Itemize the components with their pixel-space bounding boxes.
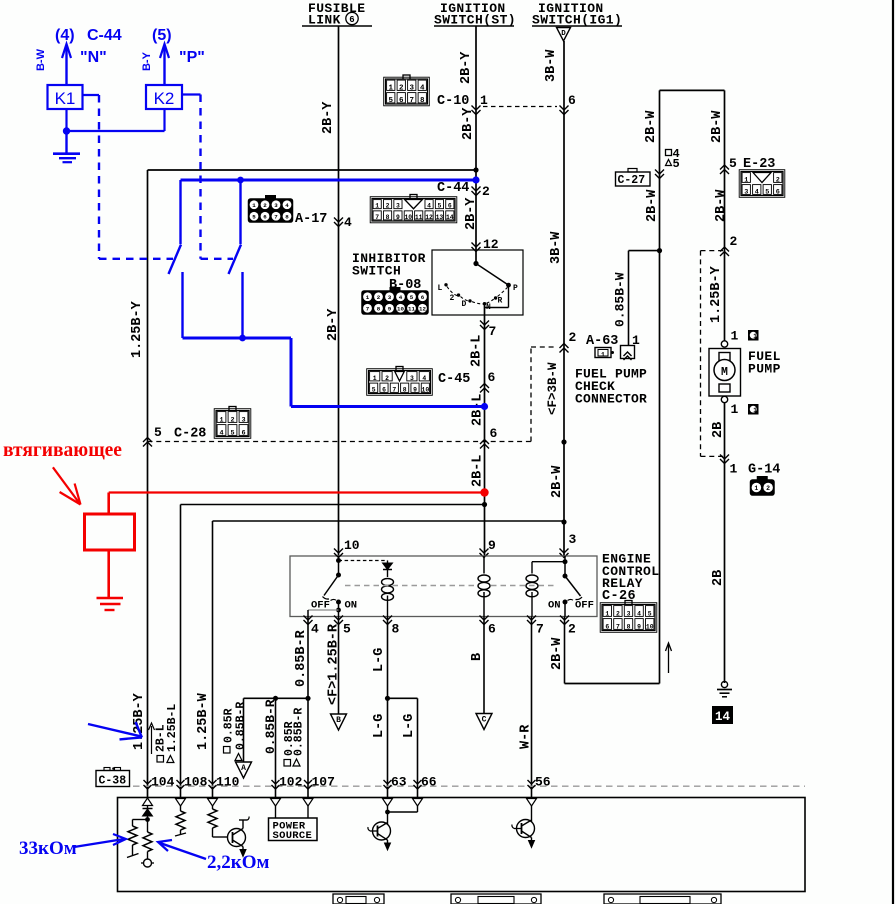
connector A-17 black [249, 196, 293, 223]
wire 0.85B-W branch A-63 [628, 251, 630, 346]
relay diode [387, 561, 389, 564]
connector C-45 10-pin [367, 367, 433, 396]
inhibitor bracket P to N wire [508, 285, 510, 307]
svg-text:(5): (5) [152, 27, 172, 44]
svg-text:0.85B-R: 0.85B-R [294, 629, 309, 687]
svg-text:3: 3 [627, 610, 631, 617]
svg-text:ON: ON [548, 600, 561, 612]
svg-text:5: 5 [729, 156, 737, 171]
triangle D terminal of ignition switch IG1 [557, 28, 571, 42]
blue dashed horizontal to switch blades [99, 258, 173, 260]
svg-text:2B-W: 2B-W [710, 110, 725, 143]
black bus line from 1.25B-Y wire to ST wire [148, 169, 477, 171]
junction dot on 3B-W at y442 [561, 439, 566, 444]
svg-text:4: 4 [344, 215, 352, 230]
svg-text:1: 1 [480, 93, 488, 108]
svg-text:10: 10 [646, 623, 654, 630]
svg-text:33кОм: 33кОм [19, 838, 77, 859]
connector C-27 [616, 172, 651, 186]
marker E-23 pin 5 [720, 165, 729, 170]
svg-text:2B-L: 2B-L [469, 335, 484, 367]
ECU pin terminals triangles [143, 798, 153, 806]
blue junction right switch [237, 177, 244, 184]
bottom partial connector 2 [451, 894, 541, 904]
svg-text:5: 5 [372, 386, 376, 393]
svg-text:14: 14 [446, 214, 454, 221]
svg-text:56: 56 [535, 775, 551, 790]
wire 1.25B-Y left to ECU pin 104 [147, 170, 149, 797]
inhibitor position R [494, 296, 497, 299]
svg-text:11: 11 [415, 214, 423, 221]
junction dot pin 66 branch [385, 696, 390, 701]
red ground symbol [97, 597, 124, 600]
blue junction at ST wire [472, 176, 479, 183]
relay pin 4 marker and wire 0.85B-R [304, 616, 313, 621]
connector G-14 black [751, 477, 775, 496]
svg-text:<F>1.25B-R: <F>1.25B-R [326, 623, 341, 705]
svg-text:B-W: B-W [35, 48, 47, 71]
relay pin 8 marker and wire L-G [383, 616, 392, 621]
svg-text:9: 9 [637, 623, 641, 630]
blue arrow K2 up [163, 47, 165, 85]
black 1-pin icon top [749, 331, 759, 341]
svg-text:"N": "N" [80, 49, 107, 66]
svg-text:0.85B-R: 0.85B-R [234, 702, 247, 750]
marker relay pin 9 [480, 549, 489, 554]
svg-text:6: 6 [605, 623, 609, 630]
bottom partial connector 1 [333, 894, 384, 904]
svg-text:C-27: C-27 [618, 174, 646, 187]
ECU pin 66 marker [414, 780, 422, 784]
wire 2B-Y ignition ST [475, 26, 477, 264]
wire 3B-W ignition IG1 to relay pin 3 [563, 41, 565, 556]
marker inhibitor pin 12 [472, 243, 481, 248]
svg-text:8: 8 [386, 214, 390, 221]
svg-text:3: 3 [409, 84, 414, 92]
svg-text:107: 107 [312, 775, 335, 790]
svg-text:втягивающее: втягивающее [3, 440, 122, 461]
svg-text:B: B [470, 653, 485, 661]
svg-text:5: 5 [252, 214, 256, 221]
svg-text:2B-W: 2B-W [644, 110, 659, 143]
relay switch1 top junction [336, 558, 341, 563]
page right border [892, 0, 894, 904]
red wire to 2B-L [109, 491, 485, 493]
svg-text:<F>3B-W: <F>3B-W [546, 362, 560, 415]
ECU transistor pin 110 [228, 829, 246, 847]
svg-text:6: 6 [776, 188, 780, 196]
svg-text:4: 4 [420, 84, 425, 92]
relay coil 3 [531, 562, 533, 574]
svg-text:4: 4 [285, 202, 289, 209]
svg-text:E-23: E-23 [743, 157, 775, 172]
svg-text:(4): (4) [55, 27, 75, 44]
svg-text:3: 3 [241, 416, 245, 424]
svg-text:L-G: L-G [372, 648, 387, 672]
svg-text:63: 63 [391, 775, 407, 790]
svg-text:1: 1 [744, 176, 748, 184]
red solenoid box [107, 493, 110, 515]
svg-text:1: 1 [373, 375, 377, 382]
red arrow [53, 467, 80, 504]
svg-text:1: 1 [219, 416, 223, 424]
svg-text:6: 6 [488, 622, 496, 637]
svg-text:3: 3 [569, 532, 577, 547]
svg-text:2B-W: 2B-W [550, 637, 565, 670]
svg-text:C-44: C-44 [437, 181, 469, 196]
dashed wire (F)3B-W from C-28 to A-63 [148, 441, 532, 443]
svg-text:10: 10 [344, 538, 360, 553]
svg-text:3B-W: 3B-W [549, 231, 564, 264]
blue switch 1 blade [169, 245, 182, 275]
svg-text:10: 10 [421, 386, 429, 393]
wire 2B-W right branch to E-23 and fuel pump [724, 90, 726, 341]
svg-text:2B: 2B [711, 422, 726, 438]
svg-text:1: 1 [252, 202, 256, 209]
svg-text:8: 8 [403, 386, 407, 393]
connector C-26 10-pin [600, 601, 657, 633]
red junction dot [480, 488, 488, 496]
svg-text:14: 14 [715, 710, 731, 724]
svg-text:8: 8 [377, 306, 381, 313]
marker A-63 pin 2 chevron (F)3B-W [560, 344, 569, 349]
svg-text:4: 4 [637, 610, 641, 617]
svg-text:6: 6 [421, 294, 425, 301]
junction dot 2B-L at branch to 108 [482, 502, 487, 507]
relay coil 1 [387, 570, 389, 578]
ECU power source box [269, 818, 318, 841]
dashed link pin10 to diode [339, 560, 388, 562]
svg-text:D: D [462, 300, 467, 309]
junction node: top line meets ST wire [473, 167, 478, 172]
svg-text:3: 3 [410, 375, 414, 382]
ECU pin 108 marker [177, 780, 185, 784]
bracket wire to ECU pin 102 and triangle A [244, 697, 309, 699]
labels 0.85R 0.85B-R pair at triangle A wire [224, 747, 231, 754]
svg-text:G-14: G-14 [748, 463, 780, 478]
fuel pump motor [721, 341, 727, 347]
svg-text:3: 3 [744, 188, 748, 196]
ECU pin 63 marker [384, 780, 392, 784]
svg-text:2B-L: 2B-L [470, 455, 485, 487]
blue arrow 33k [74, 839, 124, 847]
svg-text:1.25B-Y: 1.25B-Y [709, 265, 724, 323]
svg-text:A-17: A-17 [295, 212, 327, 227]
svg-text:9: 9 [388, 306, 392, 313]
svg-text:C-44: C-44 [87, 27, 122, 44]
marker pin 6 on IG1 wire [560, 106, 569, 111]
svg-text:B: B [336, 716, 341, 725]
svg-text:3: 3 [396, 203, 400, 210]
K2 stub to dashed [182, 93, 201, 95]
svg-text:2: 2 [450, 294, 455, 303]
svg-text:"P": "P" [179, 49, 205, 66]
svg-text:2: 2 [263, 202, 267, 209]
svg-text:104: 104 [151, 775, 175, 790]
svg-text:4: 4 [422, 375, 426, 382]
svg-text:0.85B-R: 0.85B-R [293, 708, 306, 756]
svg-text:1: 1 [601, 352, 605, 359]
branch wire to pin 66 [388, 697, 418, 699]
svg-text:5: 5 [648, 610, 652, 617]
svg-text:4: 4 [399, 294, 403, 301]
bus bracket 2B-W top [660, 89, 725, 91]
ECU terminal circle pin104 [144, 859, 152, 867]
ECU pin 110 marker [209, 780, 217, 784]
svg-text:6: 6 [568, 93, 576, 108]
svg-text:2: 2 [568, 622, 576, 637]
svg-text:L-G: L-G [372, 714, 387, 738]
up arrow beside 2B-W vertical [668, 644, 670, 673]
svg-text:5: 5 [388, 97, 393, 105]
svg-text:4: 4 [427, 203, 431, 210]
relay switch1 blade [324, 575, 339, 596]
relay pin 7 marker and wire W-R [527, 616, 536, 621]
svg-text:3B-W: 3B-W [544, 49, 559, 82]
blue bus down [290, 338, 293, 407]
svg-text:108: 108 [184, 775, 208, 790]
engine control relay box C-26 [290, 556, 597, 617]
svg-text:C-10: C-10 [437, 94, 469, 109]
svg-text:7: 7 [375, 214, 379, 221]
connector C-10 [384, 75, 430, 106]
svg-text:4: 4 [219, 429, 223, 437]
svg-text:8: 8 [285, 214, 289, 221]
svg-text:7: 7 [366, 306, 370, 313]
svg-text:1: 1 [388, 84, 393, 92]
svg-text:P: P [513, 284, 518, 293]
svg-text:2B-Y: 2B-Y [459, 51, 474, 84]
svg-text:1: 1 [731, 402, 739, 417]
svg-text:2: 2 [386, 203, 390, 210]
blue bottom bus [183, 337, 292, 340]
wire 2B-W bottom run to relay pin2 [565, 683, 660, 685]
svg-text:7: 7 [489, 324, 497, 339]
svg-text:6: 6 [490, 426, 498, 441]
junction dot pin102 [273, 696, 278, 701]
svg-text:6: 6 [448, 203, 452, 210]
svg-text:1: 1 [731, 329, 739, 344]
relay link to pin 4 [308, 609, 339, 611]
marker pin 6 at dashed crossing [480, 440, 489, 445]
relay pin 5 marker and wire (F)1.25B-R [334, 616, 343, 621]
svg-text:5: 5 [673, 157, 680, 171]
svg-text:2B-Y: 2B-Y [326, 308, 341, 341]
svg-text:L-G: L-G [402, 714, 417, 738]
svg-text:2B-W: 2B-W [645, 189, 660, 222]
ECU resistor 2.2k [143, 832, 152, 852]
ECU junction dot pin104 [147, 816, 149, 832]
blue bus to 2B-L wire [291, 405, 485, 408]
svg-text:A-63: A-63 [586, 334, 618, 349]
inhibitor position N [483, 302, 486, 305]
svg-text:2: 2 [569, 330, 577, 345]
ECU resistor 33k [133, 819, 148, 821]
svg-text:A: A [241, 764, 246, 773]
svg-text:11: 11 [408, 306, 415, 313]
black 1-pin icon bottom [749, 405, 759, 415]
svg-text:2B-Y: 2B-Y [321, 101, 336, 134]
svg-text:2: 2 [399, 84, 404, 92]
svg-text:C-26: C-26 [602, 589, 636, 604]
blue ground symbol [65, 131, 67, 154]
wire 2B to ground G-14 [724, 403, 726, 684]
relay switch1 contact [338, 556, 340, 575]
svg-text:1.25B-Y: 1.25B-Y [132, 692, 147, 750]
svg-text:1.25B-Y: 1.25B-Y [130, 300, 145, 358]
svg-text:110: 110 [216, 775, 240, 790]
svg-text:C-38: C-38 [99, 775, 127, 788]
wire 1.25B-W branch to ECU pin 110 [213, 520, 565, 522]
ECU pin 102 marker [272, 780, 280, 784]
svg-text:3: 3 [274, 202, 278, 209]
svg-text:6: 6 [241, 429, 245, 437]
blue link K1 K2 bottoms [67, 130, 165, 132]
svg-text:13: 13 [436, 214, 444, 221]
relay coil 2 pin9 [483, 556, 485, 574]
svg-text:6: 6 [399, 97, 404, 105]
inhibitor rotor blade to P [476, 264, 509, 286]
blue switch 2 upper lead [239, 180, 241, 244]
svg-text:2B-Y: 2B-Y [464, 197, 479, 230]
blue switch 1 upper lead [179, 180, 181, 244]
svg-text:SWITCH: SWITCH [352, 264, 401, 279]
svg-text:2: 2 [766, 485, 770, 492]
svg-text:PUMP: PUMP [748, 362, 781, 377]
dashed link C-10 pin1 to IG1 pin 6 [483, 106, 557, 108]
svg-text:1: 1 [754, 485, 758, 492]
svg-text:D: D [561, 30, 566, 38]
blue switch 2 lower lead [241, 272, 243, 338]
svg-text:4: 4 [311, 622, 319, 637]
svg-text:1: 1 [753, 333, 757, 340]
blue junction dot [63, 127, 70, 134]
svg-text:6: 6 [488, 370, 496, 385]
svg-text:2: 2 [230, 416, 234, 424]
blue dashed control line K1 [98, 95, 100, 259]
triangle C terminal [476, 714, 492, 730]
svg-text:1: 1 [730, 462, 738, 477]
junction dot 0.85B-W joins 2B-W wire [657, 248, 662, 253]
relay pin 2 marker and wire 2B-W [560, 616, 569, 621]
svg-text:5: 5 [154, 425, 162, 440]
svg-text:2: 2 [482, 184, 490, 199]
svg-text:2: 2 [730, 234, 738, 249]
svg-text:SOURCE: SOURCE [273, 830, 313, 842]
svg-text:9: 9 [413, 386, 417, 393]
labels 2B-L 1.25B-L pin108 markers [157, 756, 164, 763]
ECU transistor pins 63 66 [387, 806, 389, 820]
ground ref 14 black box [713, 707, 733, 724]
svg-text:C: C [482, 716, 487, 725]
svg-text:5: 5 [438, 203, 442, 210]
svg-text:1: 1 [605, 610, 609, 617]
labels 0.85R 0.85B-R pair pin107 [284, 760, 291, 767]
svg-text:12: 12 [419, 306, 426, 313]
svg-text:1.25B-L: 1.25B-L [166, 704, 179, 752]
svg-text:2B-Y: 2B-Y [461, 107, 476, 140]
marker relay pin 10 [334, 549, 343, 554]
ECU pin104 diode [147, 806, 149, 808]
svg-text:2B-W: 2B-W [714, 189, 729, 222]
blue arrow to wire 104 [88, 724, 141, 736]
connector E-23 6-pin [739, 170, 785, 198]
blue switch 2 blade [229, 245, 242, 275]
svg-text:8: 8 [420, 97, 425, 105]
svg-text:C-45: C-45 [438, 372, 470, 387]
ECU transistor pin 56 [531, 806, 533, 818]
svg-text:R: R [498, 297, 503, 306]
wire 2B-L inhibitor N to relay pin 9 [484, 304, 486, 556]
ECU pin 107 marker [304, 780, 312, 784]
svg-text:2: 2 [776, 176, 780, 184]
wire 2B-L branch to ECU pin 108 [181, 504, 485, 506]
svg-text:10: 10 [404, 214, 412, 221]
relay K2 box [146, 85, 182, 109]
blue switch 1 lower lead [181, 272, 183, 338]
svg-text:1: 1 [366, 294, 370, 301]
svg-text:9: 9 [488, 538, 496, 553]
svg-text:5: 5 [410, 294, 414, 301]
A-63 1-pin box icon [595, 348, 611, 358]
svg-text:B-Y: B-Y [141, 51, 153, 71]
marker relay pin 3 [560, 549, 569, 554]
marker C-45 pin 6 [480, 384, 489, 389]
svg-text:K2: K2 [154, 89, 175, 108]
ECU boundary dashed line [133, 785, 805, 787]
ECU resistor pin 108 [180, 806, 182, 811]
relay switch1 common lead [338, 602, 340, 617]
svg-text:7: 7 [409, 97, 414, 105]
svg-text:6: 6 [382, 386, 386, 393]
svg-text:7: 7 [536, 622, 544, 637]
blue wire bus to C-44 [181, 179, 477, 182]
svg-text:1: 1 [753, 407, 757, 414]
svg-text:M: M [721, 366, 728, 379]
inhibitor position 2 [457, 293, 460, 296]
svg-text:6: 6 [349, 15, 354, 25]
A-63 chevron box [621, 346, 635, 359]
junction dot on 3B-W at y522 [561, 519, 566, 524]
dashed fuel pump assembly outline [701, 250, 725, 252]
connector marker A-17 pin 4 on wire [334, 218, 343, 223]
marker G-14 pin 1 [720, 455, 729, 460]
wire 2B-Y fusible link to relay pin 10 [338, 26, 340, 556]
marker square 4 triangle 5 beside C-27 [666, 150, 672, 156]
blue arrow 2.2k [160, 843, 206, 859]
relay switch2 junction [563, 559, 568, 564]
svg-text:4: 4 [755, 188, 759, 196]
inhibitor rotor pivot [473, 261, 478, 266]
svg-text:7: 7 [392, 386, 396, 393]
blue junction switch2 [239, 335, 246, 342]
junction dot pin107 branch [305, 696, 310, 701]
connector C-44 14-pin [370, 195, 457, 223]
svg-text:1.25B-W: 1.25B-W [196, 692, 211, 750]
marker pin 2 fuel pump harness [720, 247, 729, 252]
small up arrow beside wire 104 [151, 726, 153, 754]
svg-text:0.85B-R: 0.85B-R [263, 699, 278, 754]
marker C-10 pin 1 [472, 106, 481, 111]
ECU pin 56 marker [528, 780, 536, 784]
ECU power source leads [275, 806, 277, 818]
svg-text:3: 3 [388, 294, 392, 301]
bottom partial connector 3 [604, 894, 721, 904]
ECU box [118, 798, 806, 892]
svg-text:W-R: W-R [518, 724, 533, 749]
svg-text:10: 10 [397, 306, 404, 313]
svg-text:L: L [438, 284, 443, 293]
